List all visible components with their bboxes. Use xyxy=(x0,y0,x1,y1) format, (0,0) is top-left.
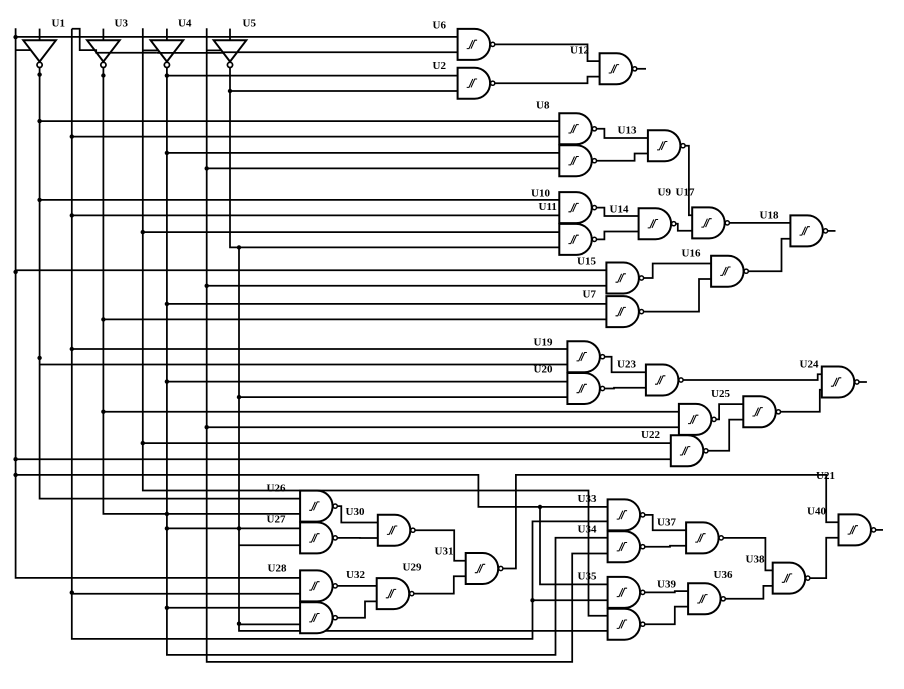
svg-text:U29: U29 xyxy=(403,562,422,574)
nand gate U13 xyxy=(648,130,685,161)
inverter U3 xyxy=(87,29,120,68)
junction B net to U35 xyxy=(530,598,534,602)
inverter U5 output rail with jog, to lower pair gate input 2 xyxy=(230,67,608,631)
wire through U4 to U5 xyxy=(157,52,222,54)
wire U4out to U28 pair gate input 1 xyxy=(167,607,300,609)
junction C to U11 xyxy=(141,230,145,234)
wire U5out branch to U27 input 2 xyxy=(239,544,300,546)
wire U6 output to U12 input 1 xyxy=(493,44,600,61)
wire D to U15 input 2 xyxy=(207,285,607,287)
svg-text:U38: U38 xyxy=(746,554,765,566)
svg-text:U16: U16 xyxy=(682,248,701,260)
svg-text:U6: U6 xyxy=(433,20,447,32)
nand gate U24 xyxy=(822,367,859,398)
wire U5out to U11 input 2 xyxy=(239,246,559,248)
port A rail down, corner to U28 input 1 xyxy=(16,28,301,578)
wire D to U9 input 2 xyxy=(207,167,560,169)
junction D to U21 gate xyxy=(205,425,209,429)
nand gate U11 xyxy=(559,224,596,255)
node on U3 output xyxy=(101,73,105,77)
wire U1out to U8 input 1 xyxy=(40,120,560,122)
inverter U4 output rail, across bottom, up to U34 input 1 xyxy=(167,67,608,655)
wire U12 output xyxy=(635,68,646,70)
nand gate U8 xyxy=(559,113,596,144)
wire U2 output to U12 input 2 xyxy=(493,77,600,84)
junction U33 wire branch xyxy=(538,505,542,509)
nand gate U30 xyxy=(378,515,415,546)
svg-text:U30: U30 xyxy=(346,506,365,518)
svg-text:U15: U15 xyxy=(577,256,596,268)
wire U35 output to U39 input 1 xyxy=(643,591,688,592)
wire U4out to U2 input 1 xyxy=(167,75,458,77)
wire U11 output to U14 input 2 xyxy=(594,232,638,240)
inverter U1 output rail, corner to U26 input 1 xyxy=(40,67,301,498)
wire U36 gate output up to U39 input 2 xyxy=(643,607,688,625)
wire B to U19 input 1 xyxy=(72,348,568,350)
junction B to U28 xyxy=(70,590,74,594)
wire U10 output to U14 input 1 xyxy=(594,208,638,216)
svg-text:U32: U32 xyxy=(346,569,365,581)
nand gate U23 xyxy=(646,365,683,396)
junction U3out to U21 gate xyxy=(101,410,105,414)
svg-text:U39: U39 xyxy=(657,579,676,591)
nand gate U15 xyxy=(606,263,643,294)
nand gate U2 xyxy=(458,68,495,99)
nand gate U40 xyxy=(839,514,876,545)
wire U16 output up to U18 input 2 xyxy=(746,239,790,272)
svg-text:U5: U5 xyxy=(243,18,257,30)
junction U5out to U20 xyxy=(237,395,241,399)
junction D to U15 xyxy=(205,284,209,288)
svg-text:U1: U1 xyxy=(52,18,65,30)
svg-text:U31: U31 xyxy=(435,546,454,558)
junction B to U8 xyxy=(70,134,74,138)
wire U8 output to U13 input 1 xyxy=(594,129,648,138)
wire U25 output up to U24 input 2 xyxy=(778,390,821,412)
junction A to U33 xyxy=(13,473,17,477)
svg-text:U14: U14 xyxy=(610,204,629,216)
junction U4out to U7 xyxy=(165,302,169,306)
nand gate U6 xyxy=(458,29,495,60)
svg-text:U12: U12 xyxy=(570,45,589,57)
svg-text:U36: U36 xyxy=(714,569,733,581)
node A top rail junction xyxy=(13,35,17,39)
nand gate U27 xyxy=(300,522,337,553)
wire U17 output to U18 input 1 xyxy=(727,222,790,224)
wire U33 output to U37 input 1 xyxy=(643,515,686,530)
wire B to U8 input 2 xyxy=(72,136,560,138)
nand gate U37 xyxy=(686,522,723,553)
nand gate U25 xyxy=(743,396,780,427)
wire U15 output to U16 input 1 xyxy=(642,264,712,279)
svg-text:U10: U10 xyxy=(531,188,550,200)
wire U20 output to U23 input 2 xyxy=(603,387,646,390)
wire A to U6 input 1 (top rail) xyxy=(16,36,458,38)
junction U5out to U2 xyxy=(228,89,232,93)
wire U4out to U9 input 1 xyxy=(167,152,559,154)
wire C tap to U4 xyxy=(143,49,158,51)
svg-text:U2: U2 xyxy=(433,60,447,72)
svg-text:U4: U4 xyxy=(178,18,192,30)
nand gate U38 xyxy=(773,563,810,594)
nand gate U33 xyxy=(608,499,645,530)
port D rail down, across bottom, up to U34 input 2 xyxy=(207,28,608,662)
nand gate U9 (pair with U8) xyxy=(559,145,596,176)
svg-text:U25: U25 xyxy=(711,388,730,400)
wire U40 output xyxy=(874,529,883,531)
wire A to U15 input 1 xyxy=(16,269,607,271)
wire U21 gate output to U25 input 1 xyxy=(714,404,743,419)
wire U3out to U7 input 2 xyxy=(103,318,606,320)
wire U13 output down to U17 input 1 xyxy=(683,146,692,216)
junction U4out to U28 pair xyxy=(165,606,169,610)
wire U7 output up to U16 input 2 xyxy=(642,279,712,312)
junction A to U22 xyxy=(13,457,17,461)
junction B to U19 xyxy=(70,347,74,351)
branch down to U35 input 1 xyxy=(540,507,608,585)
wire U31 output up, long U21 net to U40 input 1 xyxy=(501,475,839,569)
wire U14 output to U17 input 2 xyxy=(674,224,693,231)
junction U4out to U27 xyxy=(165,526,169,530)
node on U1 output rail xyxy=(37,356,41,360)
svg-text:U35: U35 xyxy=(578,571,597,583)
wire U1out to U10 input 1 xyxy=(40,199,560,201)
nand gate U31 xyxy=(466,553,503,584)
nand gate U7 xyxy=(606,296,643,327)
svg-text:U23: U23 xyxy=(617,359,636,371)
svg-text:U21: U21 xyxy=(816,470,835,482)
junction U5out at U27 wire xyxy=(237,526,241,530)
svg-text:U34: U34 xyxy=(578,524,597,536)
nand gate (pair with U28) xyxy=(300,602,337,633)
junction A to U15 xyxy=(13,270,17,274)
wire U38 output up to U40 input 2 xyxy=(808,538,839,578)
svg-text:U19: U19 xyxy=(534,337,553,349)
wire U1out to U19 input 2 xyxy=(40,364,568,366)
nand gate U34 xyxy=(608,531,645,562)
svg-text:U33: U33 xyxy=(578,493,597,505)
wire U26 output to U30 input 1 xyxy=(335,506,378,522)
nand gate U18 xyxy=(790,215,827,246)
svg-text:U27: U27 xyxy=(267,514,286,526)
junction U4out to U2 xyxy=(165,73,169,77)
svg-text:U13: U13 xyxy=(618,125,637,137)
nand gate U32 xyxy=(377,578,414,609)
port C rail down, across, down to lower pair gate input 1 xyxy=(143,28,608,616)
junction U4out at U26 wire xyxy=(165,512,169,516)
wire U5out to U20 input 2 xyxy=(239,396,567,398)
junction U4out to U9 xyxy=(165,151,169,155)
junction U3out to U7 xyxy=(101,317,105,321)
node on U1 output xyxy=(37,72,41,76)
wire U5out to U2 input 2 xyxy=(230,90,458,92)
junction B to U10 xyxy=(70,213,74,217)
wire U32 output up to U31 input 2 xyxy=(412,576,466,593)
svg-text:U9: U9 xyxy=(658,187,672,199)
nand gate U39 xyxy=(688,583,725,614)
wire D tap to U5 xyxy=(207,49,222,51)
inverter U4 xyxy=(151,29,184,68)
nand gate U22 xyxy=(671,435,708,466)
junction D to U9 xyxy=(205,166,209,170)
nand gate U16 xyxy=(711,256,748,287)
nand gate U28 xyxy=(300,570,337,601)
branch to U35 input 2 xyxy=(533,599,608,601)
wire U19 output to U23 input 1 xyxy=(603,357,646,373)
inverter U3 output rail, corner to U26 input 2 xyxy=(103,67,300,514)
svg-text:U3: U3 xyxy=(115,18,129,30)
wire U29 gate output up to U32 input 2 xyxy=(335,601,377,617)
inverter U1 xyxy=(23,29,56,68)
svg-text:U26: U26 xyxy=(267,483,286,495)
svg-text:U17: U17 xyxy=(676,187,695,199)
wire C to U22 input 1 xyxy=(143,442,671,444)
wire U18 output xyxy=(826,230,836,232)
wire through U5 to U6 input 2 xyxy=(222,51,458,54)
svg-text:U40: U40 xyxy=(807,506,826,518)
wire U4out to U7 input 1 xyxy=(167,303,607,305)
nand gate U20 xyxy=(567,373,604,404)
nand gate U12 xyxy=(600,53,637,84)
wire through U3 to U4 xyxy=(95,50,157,53)
junction U5out to U11 xyxy=(237,245,241,249)
nand gate U26 xyxy=(300,491,337,522)
svg-text:U37: U37 xyxy=(657,517,676,529)
nand gate U10 xyxy=(559,192,596,223)
port B jog wire into U3 xyxy=(72,29,95,50)
wire U22 output up to U25 input 2 xyxy=(706,420,743,451)
wire U23 output to U24 input 1 xyxy=(681,374,822,380)
wire U5out to U28 pair gate input 2 xyxy=(239,623,300,625)
wire U34 output to U37 input 2 xyxy=(643,546,686,547)
junction C to U22 xyxy=(141,441,145,445)
wire U4out to U27 input 1 xyxy=(167,527,300,529)
wire U4out to U20 input 1 xyxy=(167,381,568,383)
wire A to U33 input 1 xyxy=(16,475,608,507)
port B rail down, across bottom, up to U33 input 2 xyxy=(72,29,608,639)
wire D to U21 gate input 2 xyxy=(207,426,679,428)
svg-text:U28: U28 xyxy=(268,563,287,575)
svg-text:U22: U22 xyxy=(641,429,660,441)
wire B to U10 input 2 xyxy=(72,214,560,216)
junction U1out to U10 xyxy=(37,198,41,202)
junction U1out to U8 xyxy=(37,119,41,123)
wire U30 output down to U31 input 1 xyxy=(413,530,466,561)
wire A tap to U1 xyxy=(16,49,31,51)
nand gate (U21 net driver) xyxy=(679,404,716,435)
svg-text:U24: U24 xyxy=(800,359,819,371)
wire U24 output xyxy=(857,381,867,383)
svg-text:U18: U18 xyxy=(760,210,779,222)
svg-text:U8: U8 xyxy=(536,100,550,112)
wire C to U11 input 1 xyxy=(143,231,560,233)
svg-text:U20: U20 xyxy=(534,364,553,376)
wire U9 output to U13 input 2 xyxy=(594,154,648,161)
wire B to U28 input 2 xyxy=(72,593,300,595)
junction U4out to U20 xyxy=(165,379,169,383)
nand gate U35 xyxy=(608,577,645,608)
nand gate U14 xyxy=(639,208,676,239)
wire U28 output to U32 input 1 xyxy=(335,585,377,587)
svg-text:U11: U11 xyxy=(539,201,557,213)
inverter U5 xyxy=(214,29,247,68)
svg-text:U7: U7 xyxy=(583,289,597,301)
wire U39 output up to U38 input 2 xyxy=(723,586,773,599)
nand gate (pair with U35) xyxy=(608,609,645,640)
nand gate U19 xyxy=(567,341,604,372)
wire U3out to U21 gate input 1 xyxy=(103,411,679,413)
junction U5out to U28 pair xyxy=(237,622,241,626)
nand gate U17 xyxy=(692,207,729,238)
wire A to U22 input 2 xyxy=(16,458,671,460)
wire U37 output down to U38 input 1 xyxy=(721,538,773,571)
wire U27 output to U30 input 2 xyxy=(335,537,378,539)
